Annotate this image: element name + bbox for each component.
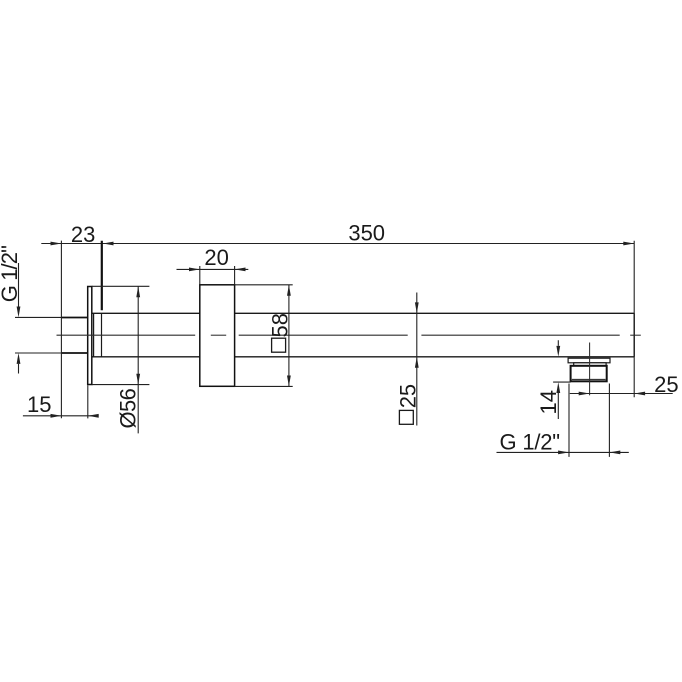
dim 58	[235, 285, 293, 387]
dim 14	[553, 340, 571, 419]
main centerline	[57, 334, 641, 336]
svg-text:15: 15	[27, 392, 51, 417]
slider block 20x58	[200, 285, 235, 387]
dimension line y=243.5 (23 and 350)	[41, 243, 634, 245]
svg-text:23: 23	[71, 222, 95, 247]
label square25	[399, 410, 413, 424]
svg-text:G 1/2": G 1/2"	[500, 430, 560, 455]
flange plate	[88, 287, 92, 385]
dim 15	[23, 385, 99, 418]
outlet washer	[568, 358, 610, 363]
outlet thread relief line	[572, 378, 606, 380]
wall thread block left	[61, 318, 87, 354]
label square58	[272, 338, 286, 352]
dim G 1/2 bottom	[497, 384, 629, 457]
svg-text:25: 25	[395, 384, 420, 408]
thick extension line x=101.8	[101, 241, 103, 310]
outlet thread G 1/2	[571, 366, 607, 382]
dim 25 right	[570, 393, 673, 395]
collar behind flange	[94, 313, 102, 357]
svg-text:58: 58	[267, 313, 292, 337]
svg-text:Ø56: Ø56	[116, 388, 141, 428]
dim O56	[92, 286, 150, 433]
outlet centerline	[589, 343, 591, 396]
extension line x=61.4	[60, 241, 62, 419]
outlet step	[574, 363, 606, 366]
svg-text:20: 20	[204, 245, 228, 270]
svg-text:350: 350	[348, 221, 385, 246]
pipe	[92, 313, 634, 357]
dim square25 center	[416, 293, 418, 426]
svg-text:14: 14	[536, 390, 561, 414]
extension line x=634.2	[633, 241, 635, 397]
dim 23 arrows	[51, 242, 635, 246]
G 1/2 left dim lines	[15, 263, 61, 374]
dim 20	[177, 266, 249, 285]
svg-text:25: 25	[654, 372, 678, 397]
